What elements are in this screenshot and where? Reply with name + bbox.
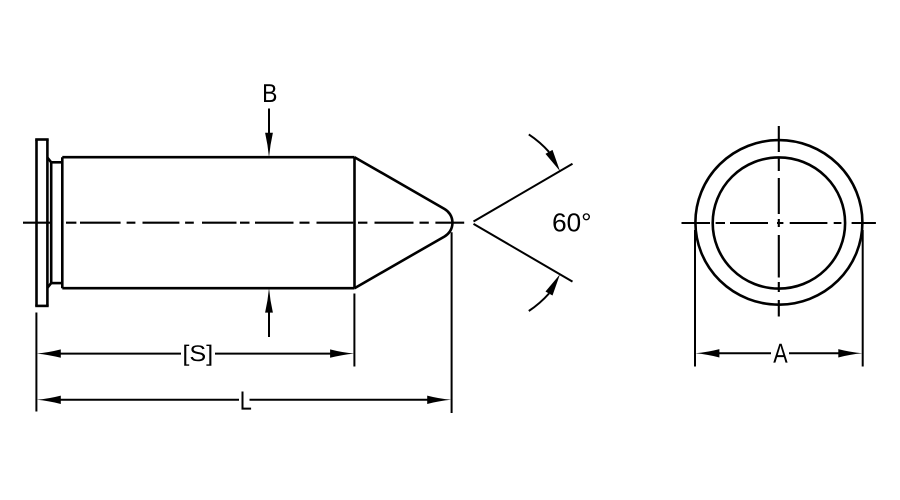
A dim line left xyxy=(718,352,771,354)
dimension B xyxy=(268,109,270,338)
angle upper line xyxy=(474,164,573,222)
cylinder bottom xyxy=(62,287,354,290)
S left arrowhead xyxy=(37,349,61,357)
L dim line right xyxy=(250,399,429,401)
A dim line right xyxy=(789,352,840,354)
A left extension line xyxy=(694,230,696,367)
angle bottom arrowhead xyxy=(546,274,561,295)
B bottom arrow line xyxy=(268,311,270,338)
flange left edge xyxy=(35,140,38,306)
60 degree label xyxy=(553,213,590,231)
dimension L xyxy=(59,232,452,413)
dimension S xyxy=(36,294,354,412)
S right extension line xyxy=(353,294,355,367)
cone base xyxy=(353,157,356,288)
circle vertical centerline xyxy=(778,126,780,317)
shoulder xyxy=(61,157,64,288)
S and L shared left extension line xyxy=(35,313,37,412)
B top arrow line xyxy=(268,109,270,136)
flange top xyxy=(35,138,49,141)
L right arrowhead xyxy=(427,396,451,404)
neck edge line xyxy=(50,162,53,283)
end view outer circle xyxy=(695,140,862,305)
A right arrowhead xyxy=(838,349,862,357)
angle leader arc top xyxy=(529,134,549,152)
S label xyxy=(184,345,211,366)
cone with rounded tip xyxy=(355,157,453,288)
circle horizontal centerline xyxy=(682,222,876,224)
angle lower line xyxy=(474,224,573,282)
L dim line left xyxy=(59,399,239,401)
flange right edge xyxy=(46,140,49,306)
chamfer top xyxy=(47,158,51,163)
flange bottom xyxy=(35,305,49,308)
L right extension line xyxy=(451,232,453,413)
neck top xyxy=(51,161,62,164)
B bottom arrowhead xyxy=(265,288,273,313)
cylinder top xyxy=(62,156,354,159)
chamfer bottom xyxy=(47,283,51,288)
S right arrowhead xyxy=(330,349,354,357)
angle top arrowhead xyxy=(546,150,561,171)
L label xyxy=(242,392,252,410)
S dim line left xyxy=(59,353,181,355)
end view inner circle xyxy=(713,157,845,288)
centerline side view xyxy=(23,222,464,224)
A right extension line xyxy=(862,230,864,367)
S dim line right xyxy=(215,353,331,355)
dimension A xyxy=(695,230,863,367)
60 degree angle lines xyxy=(474,134,573,311)
neck bottom xyxy=(51,282,62,285)
A label xyxy=(773,344,787,363)
part outline: flange xyxy=(35,140,452,306)
A left arrowhead xyxy=(695,349,719,357)
B label xyxy=(264,84,276,102)
L left arrowhead xyxy=(37,396,61,404)
angle leader arc bottom xyxy=(529,294,549,312)
B top arrowhead xyxy=(265,133,273,158)
